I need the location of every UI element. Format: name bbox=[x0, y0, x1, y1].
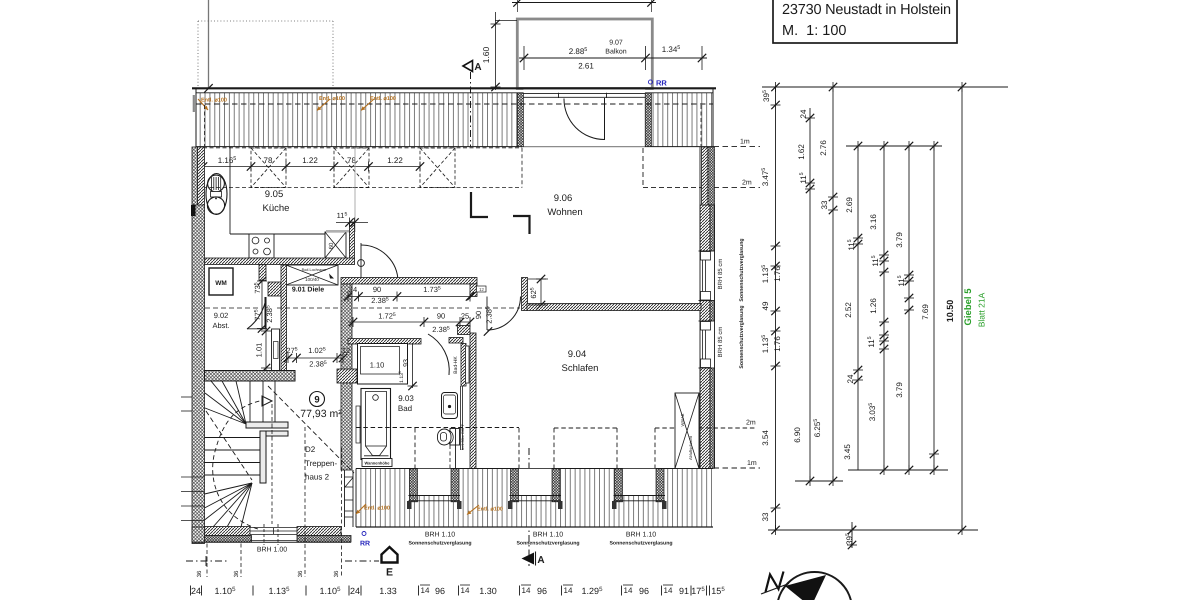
svg-text:Sonnenschutzverglasung: Sonnenschutzverglasung bbox=[609, 541, 672, 547]
svg-text:24: 24 bbox=[349, 285, 357, 294]
svg-text:14: 14 bbox=[564, 586, 573, 595]
svg-text:Schlafen: Schlafen bbox=[562, 363, 599, 374]
svg-text:BRH 1.10: BRH 1.10 bbox=[533, 532, 563, 539]
svg-text:25: 25 bbox=[461, 312, 469, 321]
svg-text:M. 1: 100: M. 1: 100 bbox=[782, 23, 846, 39]
svg-text:BRH 1.10: BRH 1.10 bbox=[425, 532, 455, 539]
svg-text:9.06: 9.06 bbox=[554, 193, 573, 204]
svg-text:Abst.: Abst. bbox=[212, 321, 229, 330]
svg-text:A: A bbox=[537, 555, 544, 566]
svg-text:78: 78 bbox=[264, 156, 273, 165]
svg-text:24: 24 bbox=[799, 109, 808, 118]
svg-text:2.69: 2.69 bbox=[845, 197, 854, 213]
svg-text:7.69: 7.69 bbox=[921, 304, 930, 320]
svg-text:BRH 85 cm: BRH 85 cm bbox=[717, 259, 724, 290]
svg-text:1m: 1m bbox=[747, 460, 757, 467]
svg-text:Treppen-: Treppen- bbox=[305, 459, 338, 468]
svg-text:33: 33 bbox=[820, 200, 829, 209]
svg-text:Entl. ⌀100: Entl. ⌀100 bbox=[477, 507, 503, 513]
svg-text:Entl. ⌀100: Entl. ⌀100 bbox=[319, 96, 345, 102]
svg-text:RR: RR bbox=[360, 541, 370, 548]
svg-text:14: 14 bbox=[664, 586, 673, 595]
svg-text:60: 60 bbox=[328, 242, 335, 249]
svg-text:E: E bbox=[386, 567, 393, 579]
svg-text:RR: RR bbox=[656, 79, 667, 88]
svg-text:Blatt 21A: Blatt 21A bbox=[977, 292, 987, 327]
svg-text:BRH 1.00: BRH 1.00 bbox=[257, 547, 287, 554]
svg-text:Wohnen: Wohnen bbox=[547, 207, 582, 218]
svg-text:96: 96 bbox=[537, 586, 547, 596]
svg-text:90: 90 bbox=[437, 312, 445, 321]
svg-text:24: 24 bbox=[191, 586, 201, 596]
svg-text:1.01: 1.01 bbox=[255, 343, 264, 358]
svg-text:1.60: 1.60 bbox=[481, 46, 491, 63]
svg-text:6.90: 6.90 bbox=[793, 427, 802, 443]
svg-text:24: 24 bbox=[846, 374, 855, 383]
svg-text:Entl. ⌀100: Entl. ⌀100 bbox=[201, 98, 227, 104]
svg-text:36: 36 bbox=[233, 570, 240, 577]
svg-text:WM: WM bbox=[215, 280, 227, 287]
svg-text:90: 90 bbox=[474, 311, 483, 319]
svg-text:1.22: 1.22 bbox=[387, 156, 403, 165]
svg-text:Wannenhöhe: Wannenhöhe bbox=[365, 460, 391, 465]
svg-text:12: 12 bbox=[479, 287, 484, 292]
svg-text:24: 24 bbox=[350, 586, 360, 596]
svg-text:96: 96 bbox=[639, 586, 649, 596]
svg-text:BRH 1.10: BRH 1.10 bbox=[626, 532, 656, 539]
svg-text:96: 96 bbox=[435, 586, 445, 596]
svg-text:2.76: 2.76 bbox=[819, 140, 828, 156]
svg-text:9.05: 9.05 bbox=[265, 189, 284, 200]
svg-text:Küche: Küche bbox=[263, 203, 290, 214]
svg-text:9.02: 9.02 bbox=[214, 311, 229, 320]
svg-text:Sonnenschutzverglasung: Sonnenschutzverglasung bbox=[739, 238, 745, 301]
svg-text:14: 14 bbox=[522, 586, 531, 595]
svg-text:36: 36 bbox=[333, 570, 340, 577]
svg-text:WB/AB: WB/AB bbox=[680, 413, 685, 426]
svg-text:14: 14 bbox=[624, 586, 633, 595]
svg-text:1.26: 1.26 bbox=[869, 298, 878, 314]
svg-text:9.03: 9.03 bbox=[398, 394, 414, 403]
svg-text:Bad: Bad bbox=[398, 404, 412, 413]
svg-text:23730 Neustadt in Holstein: 23730 Neustadt in Holstein bbox=[782, 2, 951, 18]
svg-text:3.79: 3.79 bbox=[895, 232, 904, 248]
svg-text:77,93 m²: 77,93 m² bbox=[300, 408, 342, 420]
svg-text:3.54: 3.54 bbox=[761, 430, 770, 446]
svg-text:14: 14 bbox=[421, 586, 430, 595]
svg-text:3.45: 3.45 bbox=[843, 444, 852, 460]
svg-text:1.62: 1.62 bbox=[797, 144, 806, 160]
svg-text:9.07: 9.07 bbox=[609, 40, 623, 47]
svg-text:BRH 85 cm: BRH 85 cm bbox=[717, 327, 724, 358]
svg-text:Sonnenschutzverglasung: Sonnenschutzverglasung bbox=[408, 541, 471, 547]
svg-text:49: 49 bbox=[761, 301, 770, 310]
svg-text:36: 36 bbox=[196, 570, 203, 577]
svg-text:1.10: 1.10 bbox=[370, 361, 385, 370]
svg-text:1.22: 1.22 bbox=[302, 156, 318, 165]
svg-text:Abluftschacht: Abluftschacht bbox=[688, 435, 693, 460]
svg-text:Giebel 5: Giebel 5 bbox=[963, 288, 974, 326]
svg-text:1.33: 1.33 bbox=[379, 586, 397, 596]
svg-text:Bad-HK: Bad-HK bbox=[453, 356, 459, 374]
svg-text:1m: 1m bbox=[740, 139, 750, 146]
svg-text:91: 91 bbox=[679, 586, 689, 596]
svg-text:1.76: 1.76 bbox=[773, 266, 782, 282]
svg-text:100/40: 100/40 bbox=[305, 277, 319, 282]
svg-text:D2: D2 bbox=[305, 445, 316, 454]
svg-text:3.79: 3.79 bbox=[895, 382, 904, 398]
svg-text:33: 33 bbox=[761, 512, 770, 521]
svg-text:Balkon: Balkon bbox=[605, 48, 627, 56]
svg-text:2.61: 2.61 bbox=[578, 62, 594, 71]
svg-text:36: 36 bbox=[297, 570, 304, 577]
svg-text:1.30: 1.30 bbox=[479, 586, 497, 596]
svg-text:9.04: 9.04 bbox=[568, 349, 587, 360]
svg-text:10.50: 10.50 bbox=[945, 300, 955, 323]
svg-text:haus 2: haus 2 bbox=[305, 473, 330, 482]
svg-text:Bod.Lochraum: Bod.Lochraum bbox=[302, 268, 327, 272]
svg-text:2m: 2m bbox=[742, 180, 752, 187]
svg-text:Sonnenschutzverglasung: Sonnenschutzverglasung bbox=[739, 305, 745, 368]
svg-text:9.01 Diele: 9.01 Diele bbox=[292, 286, 324, 294]
svg-text:Sonnenschutzverglasung: Sonnenschutzverglasung bbox=[516, 541, 579, 547]
svg-text:2m: 2m bbox=[746, 420, 756, 427]
svg-text:9: 9 bbox=[314, 395, 319, 406]
svg-text:14: 14 bbox=[461, 586, 470, 595]
svg-text:2.52: 2.52 bbox=[844, 302, 853, 318]
svg-text:12: 12 bbox=[342, 346, 350, 355]
svg-text:1.76: 1.76 bbox=[773, 336, 782, 352]
svg-text:Entl. ⌀100: Entl. ⌀100 bbox=[364, 506, 390, 512]
svg-text:93: 93 bbox=[403, 359, 410, 367]
svg-text:90: 90 bbox=[373, 285, 381, 294]
svg-text:A: A bbox=[474, 62, 481, 73]
svg-text:3.16: 3.16 bbox=[869, 214, 878, 230]
